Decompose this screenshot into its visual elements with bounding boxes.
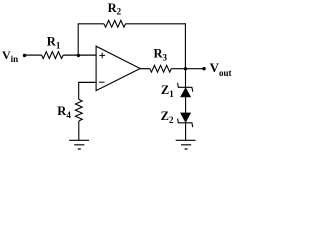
ground right bbox=[176, 140, 196, 149]
node Vout terminal bbox=[202, 67, 205, 70]
op-amp U1 bbox=[96, 46, 140, 90]
op-amp - pin symbol bbox=[99, 81, 105, 83]
svg-text:R1: R1 bbox=[47, 35, 61, 51]
node junction at output bbox=[184, 67, 187, 70]
wire Z2 to ground bbox=[185, 123, 187, 141]
svg-text:Vin: Vin bbox=[2, 48, 18, 64]
node junction at + input bbox=[77, 54, 80, 57]
ground left bbox=[69, 140, 89, 149]
zener Z1 body bbox=[181, 88, 191, 97]
resistor R4 bbox=[75, 99, 82, 121]
svg-text:Vout: Vout bbox=[210, 60, 232, 78]
svg-text:R4: R4 bbox=[57, 104, 71, 120]
wire output node down to Z1 bbox=[185, 69, 187, 88]
svg-text:Z2: Z2 bbox=[161, 109, 174, 125]
wire - input to left bbox=[79, 81, 97, 83]
node Vin terminal bbox=[23, 54, 26, 57]
wire R3 to Vout bbox=[171, 68, 203, 70]
wire top left segment to R2 bbox=[78, 23, 104, 25]
wire right rail down to output node bbox=[184, 24, 186, 69]
zener Z1 cathode bar bbox=[178, 83, 193, 92]
svg-text:R3: R3 bbox=[154, 46, 168, 62]
wire op-amp output to R3 bbox=[140, 68, 150, 70]
wire R4 to ground bbox=[78, 121, 80, 140]
resistor R2 bbox=[104, 20, 126, 27]
svg-text:R2: R2 bbox=[108, 1, 122, 17]
wire junction up to feedback line bbox=[77, 24, 79, 55]
wire R2 to right rail bbox=[125, 23, 186, 25]
wire R1 to op-amp + input bbox=[63, 54, 96, 56]
op-amp + pin symbol bbox=[99, 53, 105, 59]
resistor R3 bbox=[150, 65, 172, 72]
resistor R1 bbox=[42, 52, 64, 59]
wire Vin to R1 bbox=[26, 54, 42, 56]
wire down to R4 bbox=[78, 82, 80, 100]
zener Z2 cathode bar bbox=[178, 118, 193, 127]
zener Z2 body bbox=[181, 113, 191, 122]
wire Z1 to Z2 bbox=[185, 97, 187, 113]
svg-text:Z1: Z1 bbox=[161, 83, 174, 99]
